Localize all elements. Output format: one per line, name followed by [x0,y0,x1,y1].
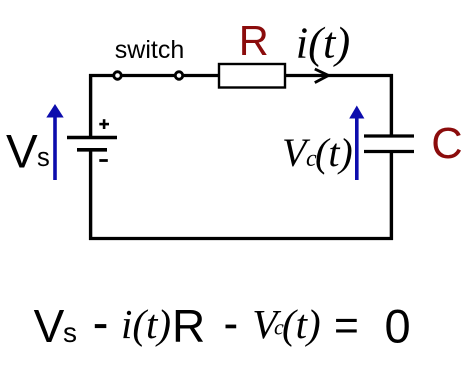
label C [431,120,462,168]
Vs polarity arrow (blue) [46,104,63,180]
svg-text:i(t): i(t) [121,301,171,347]
resistor R body [219,64,285,88]
switch S1 terminal node 1 [114,72,122,80]
battery V1 negative plate [77,148,107,152]
label i(t) [296,18,350,68]
wire right vertical upper [390,74,393,135]
wire switch to resistor [184,74,219,77]
svg-text:V: V [34,300,65,352]
wire left vertical lower [89,150,92,240]
svg-text:s: s [37,144,50,172]
current direction arrowhead i(t) [315,69,329,83]
wire bottom horizontal [89,237,393,240]
battery V1 positive plate [67,136,117,139]
svg-text:V: V [6,126,38,179]
label R [239,17,269,64]
label Vc(t) [282,130,353,175]
label switch [115,36,184,64]
svg-text:R: R [239,17,269,64]
wire left vertical upper [89,74,92,137]
wire top-left horizontal [89,74,114,77]
capacitor C top plate [364,134,414,137]
svg-text:R: R [172,300,205,352]
switch S1 terminal node 2 [175,72,183,80]
svg-text:(t): (t) [315,130,353,175]
wire between switch terminals [123,74,175,77]
battery minus sign [99,159,108,162]
label Vs [6,126,50,179]
battery plus sign [99,119,109,129]
wire right vertical lower [390,153,393,241]
wire resistor to top-right corner [285,74,393,77]
svg-text:=: = [334,303,359,350]
svg-text:C: C [431,120,462,168]
Vc(t) polarity arrow (blue) [349,106,364,181]
svg-text:(t): (t) [282,301,321,347]
svg-text:s: s [63,317,77,348]
svg-text:switch: switch [115,36,184,64]
KVL equation: Vs - i(t)R - Vc(t) = 0 [34,300,411,353]
capacitor C bottom plate [364,150,414,153]
svg-text:0: 0 [385,300,411,353]
svg-text:i(t): i(t) [296,18,350,68]
